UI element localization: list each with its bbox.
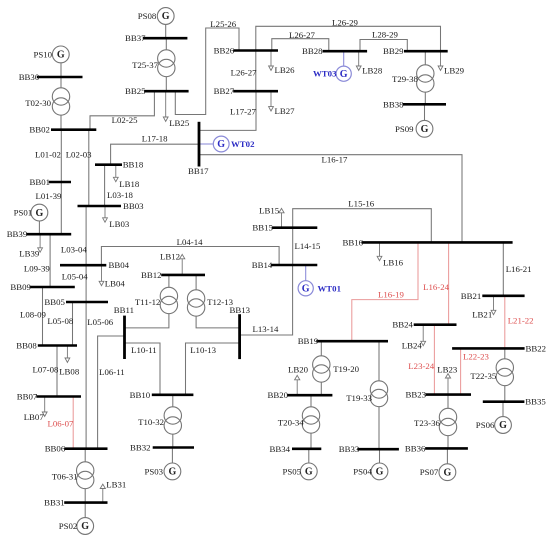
line L03-04: [61, 206, 87, 265]
transformer T10-32: [138, 407, 181, 434]
svg-text:LB20: LB20: [288, 365, 309, 375]
wind turbine generator WT03: [313, 66, 351, 81]
svg-text:T06-31: T06-31: [52, 472, 78, 482]
transformer T23-36: [414, 408, 457, 435]
svg-text:WT03: WT03: [313, 69, 337, 79]
svg-text:G: G: [36, 208, 44, 219]
load LB24: [402, 325, 426, 351]
wind turbine generator WT02: [213, 136, 255, 152]
svg-text:BB01: BB01: [30, 177, 51, 187]
svg-text:T19-33: T19-33: [346, 393, 372, 403]
svg-text:L01-39: L01-39: [36, 191, 62, 201]
svg-text:BB35: BB35: [525, 397, 546, 407]
bus BB07: [17, 392, 81, 402]
svg-text:T20-34: T20-34: [278, 418, 304, 428]
wire T29-38 to BB38: [424, 92, 426, 104]
svg-text:LB27: LB27: [275, 106, 296, 116]
svg-text:LB12: LB12: [160, 251, 180, 261]
svg-text:L06-11: L06-11: [99, 367, 125, 377]
wire BB28 to WT03: [343, 51, 345, 66]
bus BB06: [45, 444, 108, 454]
generator PS08: [138, 8, 174, 25]
bus BB27: [214, 86, 278, 96]
svg-text:BB17: BB17: [188, 166, 209, 176]
svg-text:L26-27: L26-27: [231, 68, 257, 78]
svg-text:BB38: BB38: [383, 99, 404, 109]
svg-text:L07-08: L07-08: [33, 365, 59, 375]
svg-text:BB16: BB16: [343, 237, 364, 247]
bus BB26: [214, 46, 278, 56]
transformer T06-31: [52, 462, 94, 489]
bus BB05: [44, 297, 108, 307]
line L17-27: [199, 91, 256, 130]
svg-text:L01-02: L01-02: [35, 150, 61, 160]
svg-text:LB07: LB07: [24, 412, 45, 422]
svg-text:L05-04: L05-04: [62, 271, 88, 281]
load LB18: [113, 165, 140, 189]
svg-text:LB31: LB31: [106, 480, 126, 490]
line L05-04: [62, 265, 88, 302]
load LB03: [103, 206, 130, 229]
load LB27: [269, 91, 296, 116]
svg-text:BB14: BB14: [252, 260, 273, 270]
svg-text:L08-09: L08-09: [20, 309, 46, 319]
line L25-26: [175, 19, 239, 114]
transformer T02-30: [25, 88, 69, 115]
bus BB37: [125, 33, 187, 43]
bus BB18: [95, 160, 144, 170]
wire T22-35 to BB35: [504, 386, 506, 402]
svg-text:LB23: LB23: [437, 364, 458, 374]
bus BB36: [405, 443, 468, 453]
wire PS08 to BB37: [165, 24, 167, 38]
bus BB39: [7, 229, 72, 239]
svg-text:G: G: [376, 467, 384, 478]
svg-text:L06-07: L06-07: [48, 419, 74, 429]
load LB12: [160, 251, 185, 275]
svg-text:BB09: BB09: [10, 282, 31, 292]
bus BB23: [406, 390, 472, 400]
transformer T20-34: [278, 407, 320, 433]
svg-text:BB03: BB03: [123, 201, 144, 211]
bus BB14: [252, 260, 317, 270]
bus BB17 (vertical): [188, 122, 209, 176]
bus BB38: [383, 99, 446, 109]
svg-text:G: G: [499, 420, 507, 431]
wire T23-36 to BB36: [447, 436, 449, 449]
bus BB15: [252, 223, 317, 233]
svg-text:BB30: BB30: [19, 72, 40, 82]
wire PS01 to BB39: [38, 221, 40, 234]
svg-text:L17-27: L17-27: [230, 106, 256, 116]
generator PS02: [59, 518, 94, 535]
bus BB25: [125, 86, 189, 96]
transformer T19-33: [346, 381, 387, 407]
svg-text:L03-04: L03-04: [61, 245, 87, 255]
svg-text:LB24: LB24: [402, 341, 423, 351]
wire T11-12 to BB11: [125, 314, 169, 328]
transformer T11-12: [135, 287, 178, 313]
bus BB19: [298, 336, 388, 346]
svg-text:BB11: BB11: [114, 305, 134, 315]
svg-text:BB20: BB20: [268, 390, 289, 400]
svg-text:BB34: BB34: [270, 444, 291, 454]
line L13-14: [240, 265, 293, 335]
line L16-17: [199, 155, 462, 243]
load LB15: [259, 206, 284, 228]
wire T10-32 to BB32: [172, 434, 174, 448]
svg-text:BB06: BB06: [45, 444, 66, 454]
svg-text:T29-38: T29-38: [392, 74, 418, 84]
svg-text:L16-17: L16-17: [322, 155, 348, 165]
svg-text:PS02: PS02: [59, 521, 78, 531]
svg-text:PS05: PS05: [283, 466, 302, 476]
line L01-39: [36, 182, 62, 234]
load LB23: [437, 364, 458, 394]
svg-text:PS10: PS10: [34, 49, 53, 59]
bus BB08: [16, 341, 77, 351]
line L22-23 (red): [461, 348, 490, 394]
line L26-27: [231, 51, 257, 92]
svg-text:L21-22: L21-22: [508, 315, 534, 325]
svg-text:PS01: PS01: [14, 208, 33, 218]
svg-text:T25-37: T25-37: [132, 60, 158, 70]
svg-text:LB21: LB21: [472, 310, 492, 320]
wind turbine generator WT01: [298, 281, 341, 296]
svg-text:BB39: BB39: [7, 229, 28, 239]
bus BB04: [60, 260, 130, 270]
svg-text:G: G: [217, 139, 225, 150]
wire T19-20 to BB20: [320, 382, 322, 395]
svg-text:L02-03: L02-03: [66, 150, 92, 160]
svg-text:L25-26: L25-26: [210, 19, 236, 29]
line L02-03: [66, 130, 92, 206]
wire BB32 to PS03: [171, 448, 173, 464]
svg-text:BB29: BB29: [383, 46, 404, 56]
wire BB22 to T22-35: [504, 348, 506, 359]
line L09-39: [24, 234, 50, 287]
svg-text:G: G: [302, 284, 310, 295]
svg-text:L04-14: L04-14: [177, 237, 203, 247]
svg-text:L15-16: L15-16: [348, 199, 374, 209]
wire BB37 to T25-37: [165, 38, 167, 50]
svg-text:L10-13: L10-13: [190, 345, 216, 355]
svg-text:BB12: BB12: [141, 270, 162, 280]
line L26-27 upper bracket: [272, 30, 329, 51]
svg-text:LB39: LB39: [19, 248, 40, 258]
line L16-24 (red): [423, 242, 449, 324]
wire T02-30 to BB02: [60, 115, 62, 130]
svg-text:L16-19: L16-19: [378, 290, 404, 300]
svg-text:L05-06: L05-06: [87, 317, 113, 327]
wire BB06 to T06-31: [84, 449, 86, 462]
wire BB17 to WT02: [199, 143, 213, 145]
wire BB19 to T19-20: [320, 341, 322, 356]
generator PS10: [34, 46, 70, 63]
bus BB34: [270, 444, 322, 454]
generator PS04: [353, 463, 388, 480]
svg-text:LB04: LB04: [105, 279, 126, 289]
svg-text:G: G: [169, 467, 177, 478]
bus BB22: [452, 343, 546, 353]
svg-text:LB29: LB29: [444, 65, 465, 75]
line L21-22 (red): [505, 296, 534, 349]
svg-text:T19-20: T19-20: [333, 364, 359, 374]
line L06-07 (red): [48, 397, 74, 449]
bus BB16: [343, 237, 513, 247]
wire BB20 to T20-34: [310, 395, 312, 407]
svg-text:LB16: LB16: [383, 257, 404, 267]
svg-text:L10-11: L10-11: [131, 345, 157, 355]
svg-text:LB25: LB25: [169, 118, 190, 128]
wire BB34 to PS05: [308, 449, 310, 463]
load LB16: [377, 242, 404, 267]
wire BB38 to PS09: [424, 104, 426, 120]
svg-text:G: G: [57, 50, 65, 61]
svg-text:BB10: BB10: [130, 390, 151, 400]
line L07-08: [33, 346, 59, 397]
bus BB20: [268, 390, 333, 400]
svg-text:BB37: BB37: [125, 33, 146, 43]
bus BB12: [141, 270, 205, 280]
wire BB19 to T19-33: [378, 341, 380, 381]
svg-text:BB02: BB02: [29, 125, 50, 135]
svg-text:L02-25: L02-25: [112, 115, 138, 125]
line L01-02: [35, 130, 61, 182]
svg-text:L16-21: L16-21: [506, 264, 532, 274]
svg-text:PS07: PS07: [420, 467, 439, 477]
svg-text:L23-24: L23-24: [408, 361, 434, 371]
svg-text:G: G: [162, 11, 170, 22]
load LB28: [356, 51, 383, 75]
line L05-08: [47, 302, 73, 346]
bus BB33: [339, 444, 399, 454]
svg-text:L13-14: L13-14: [253, 324, 279, 334]
svg-text:G: G: [444, 467, 452, 478]
svg-text:BB27: BB27: [214, 86, 235, 96]
svg-text:BB32: BB32: [130, 443, 151, 453]
wire BB36 to PS07: [446, 448, 448, 463]
svg-text:BB36: BB36: [405, 443, 426, 453]
bus BB01: [30, 177, 72, 187]
svg-text:BB24: BB24: [392, 320, 413, 330]
svg-text:LB03: LB03: [109, 219, 130, 229]
svg-text:G: G: [340, 69, 348, 80]
svg-text:G: G: [305, 467, 313, 478]
svg-text:BB08: BB08: [16, 341, 37, 351]
load LB29: [438, 51, 465, 75]
svg-text:BB18: BB18: [123, 160, 144, 170]
svg-text:G: G: [421, 124, 429, 135]
transformer T29-38: [392, 65, 434, 92]
line L10-13: [186, 343, 240, 395]
line L10-11: [125, 343, 161, 395]
wire BB10 to T10-32: [172, 395, 174, 407]
line L02-25: [90, 91, 154, 130]
svg-text:BB28: BB28: [302, 46, 323, 56]
svg-text:T12-13: T12-13: [207, 297, 233, 307]
svg-text:LB08: LB08: [59, 366, 80, 376]
bus BB35: [483, 397, 547, 407]
generator PS09: [395, 120, 433, 137]
line L14-15: [293, 228, 321, 265]
svg-text:L26-27: L26-27: [289, 30, 315, 40]
bus BB10: [130, 390, 194, 400]
wire PS10 to BB30 to T02-30: [60, 63, 62, 88]
svg-text:T22-35: T22-35: [470, 371, 496, 381]
line L03-18: [105, 165, 134, 206]
svg-text:G: G: [81, 521, 89, 532]
svg-text:BB21: BB21: [461, 291, 482, 301]
line L15-16: [293, 199, 432, 243]
wire T20-34 to BB34: [310, 433, 312, 449]
bus BB28: [302, 46, 367, 56]
wire T06-31 to BB31: [84, 489, 86, 503]
generator PS05: [283, 463, 318, 480]
wire T25-37 to BB25: [165, 77, 167, 92]
svg-text:L22-23: L22-23: [463, 352, 489, 362]
svg-text:BB07: BB07: [17, 392, 38, 402]
svg-text:L05-08: L05-08: [47, 316, 73, 326]
svg-text:PS09: PS09: [395, 124, 414, 134]
bus BB03: [78, 201, 145, 211]
line L23-24 (red): [408, 325, 434, 395]
svg-text:T02-30: T02-30: [25, 98, 51, 108]
svg-text:L28-29: L28-29: [372, 30, 398, 40]
load LB31: [100, 480, 126, 503]
line L06-11: [98, 336, 125, 449]
wire BB35 to PS06: [502, 402, 504, 417]
svg-text:BB19: BB19: [298, 336, 319, 346]
line L08-09: [20, 287, 46, 346]
line L04-14: [101, 237, 279, 265]
transformer T25-37: [132, 50, 175, 77]
svg-text:L16-24: L16-24: [423, 282, 449, 292]
svg-text:L03-18: L03-18: [107, 190, 133, 200]
svg-text:PS03: PS03: [145, 466, 164, 476]
svg-text:PS04: PS04: [353, 466, 372, 476]
generator PS07: [420, 464, 456, 481]
load LB21: [472, 296, 496, 320]
transformer T12-13: [187, 290, 233, 316]
svg-text:L14-15: L14-15: [295, 241, 321, 251]
bus BB30: [19, 72, 83, 82]
svg-text:BB25: BB25: [125, 86, 146, 96]
bus BB13 (vertical): [230, 305, 251, 359]
svg-text:T10-32: T10-32: [138, 417, 164, 427]
svg-text:BB33: BB33: [339, 444, 360, 454]
bus BB21: [461, 291, 525, 301]
load LB25: [163, 91, 190, 128]
wire BB14 to WT01: [305, 265, 307, 281]
line L26-29: [256, 18, 441, 52]
svg-text:T23-36: T23-36: [414, 418, 440, 428]
load LB20: [288, 365, 309, 396]
transformer T22-35: [470, 359, 513, 386]
wire T12-13 to BB13: [196, 316, 240, 328]
bus BB29: [383, 46, 448, 56]
wire BB23 to T23-36: [447, 395, 449, 409]
svg-text:BB22: BB22: [526, 343, 547, 353]
load LB39: [19, 234, 42, 258]
bus BB32: [130, 443, 194, 453]
svg-text:L17-18: L17-18: [142, 134, 168, 144]
load LB04: [99, 265, 125, 288]
wire BB33 to PS04: [379, 449, 381, 463]
line L05-06: [86, 302, 114, 449]
generator PS03: [145, 463, 181, 480]
line L16-19 (red): [352, 242, 418, 341]
generator PS01: [14, 204, 48, 221]
bus BB24: [392, 320, 456, 330]
line L16-21: [503, 242, 531, 295]
svg-text:L09-39: L09-39: [24, 263, 50, 273]
svg-text:LB28: LB28: [362, 65, 383, 75]
bus BB11 (vertical): [114, 305, 134, 359]
wire BB12 to T12-13: [195, 275, 197, 290]
bus BB09: [10, 282, 74, 292]
load LB08: [59, 346, 80, 377]
wire BB12 to T11-12: [168, 275, 170, 288]
svg-text:BB05: BB05: [44, 297, 65, 307]
svg-text:WT02: WT02: [231, 139, 255, 149]
svg-text:BB04: BB04: [109, 260, 130, 270]
svg-text:WT01: WT01: [318, 283, 341, 293]
svg-text:T11-12: T11-12: [135, 297, 161, 307]
svg-text:LB26: LB26: [275, 65, 296, 75]
load LB26: [269, 51, 296, 76]
line L17-18: [111, 134, 199, 165]
wire T19-33 to BB33: [378, 407, 380, 450]
line L28-29: [360, 30, 407, 52]
bus BB31: [44, 498, 107, 508]
svg-text:PS08: PS08: [138, 11, 157, 21]
transformer T19-20: [313, 356, 360, 382]
svg-text:BB31: BB31: [44, 498, 65, 508]
bus BB02: [29, 125, 96, 135]
svg-text:L26-29: L26-29: [332, 18, 358, 28]
load LB07: [24, 397, 47, 423]
svg-text:BB23: BB23: [406, 390, 427, 400]
wire BB31 to PS02: [84, 503, 86, 518]
svg-text:BB26: BB26: [214, 46, 235, 56]
svg-text:PS06: PS06: [476, 420, 495, 430]
svg-text:LB18: LB18: [119, 179, 140, 189]
svg-text:BB15: BB15: [252, 223, 273, 233]
wire BB29 to T29-38: [424, 51, 426, 65]
generator PS06: [476, 417, 512, 434]
svg-text:LB15: LB15: [259, 206, 280, 216]
